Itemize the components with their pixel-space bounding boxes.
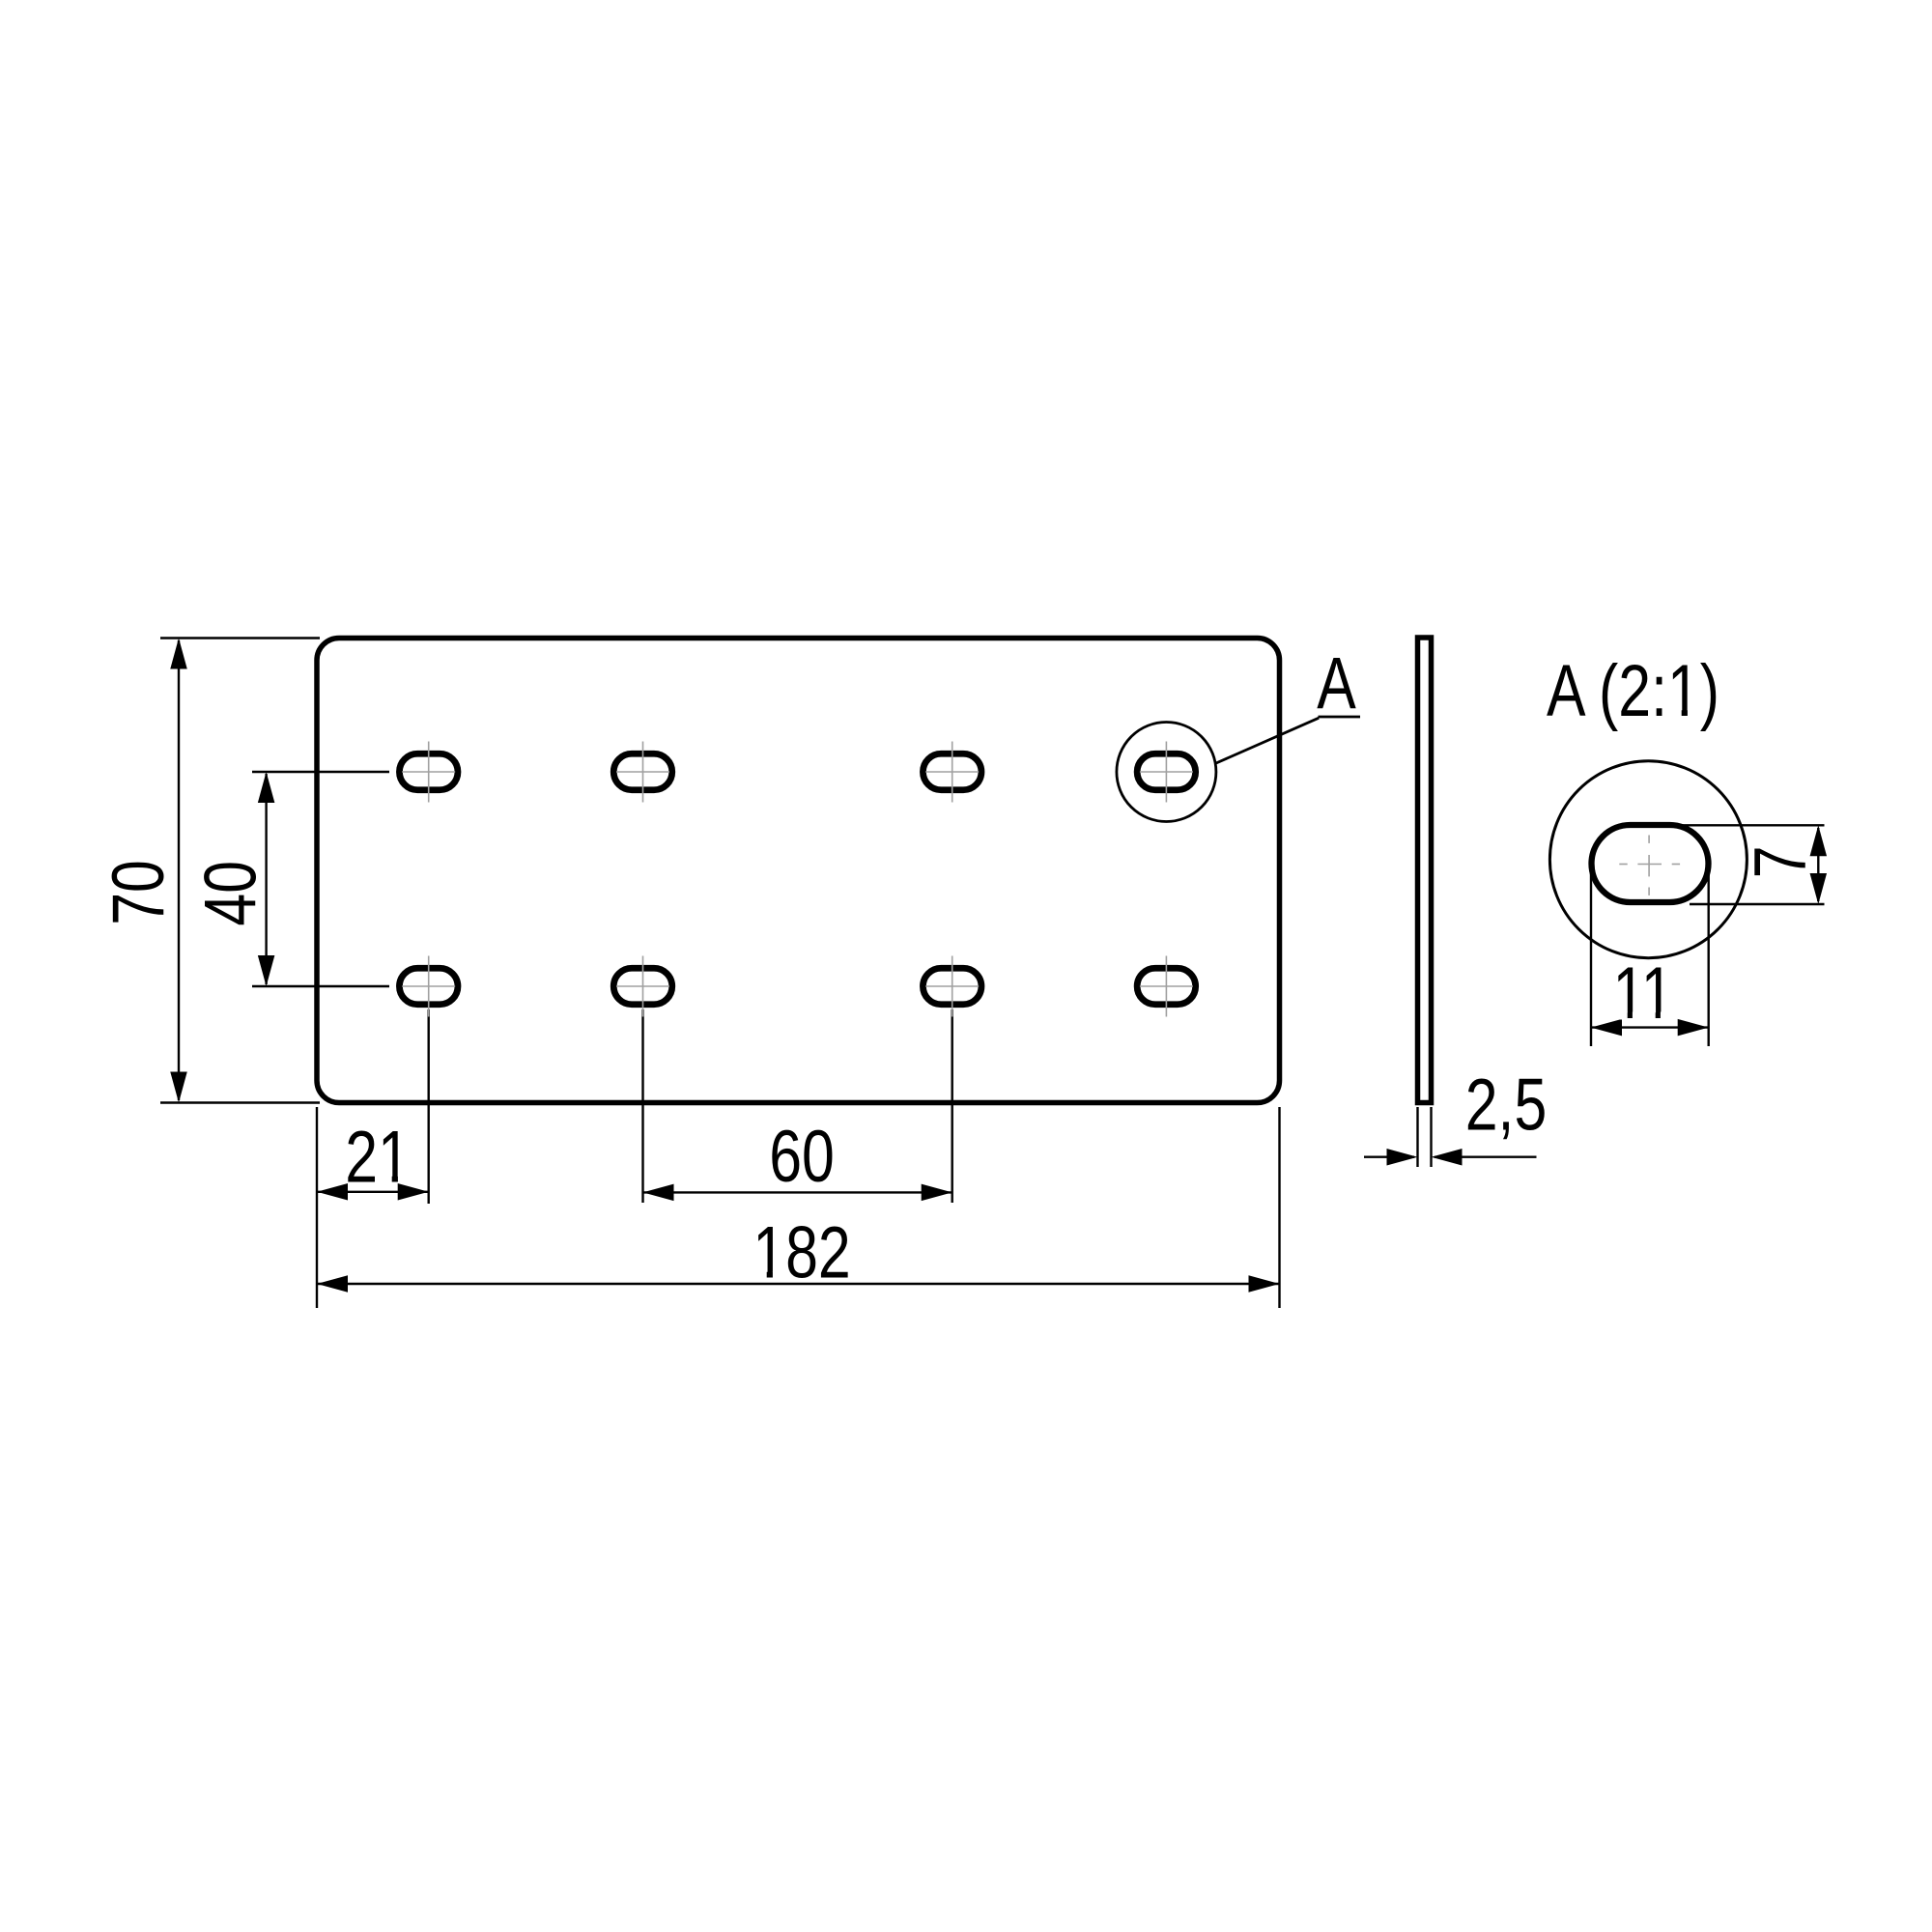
- svg-text:21: 21: [345, 1116, 411, 1198]
- svg-text:7: 7: [1739, 845, 1821, 878]
- svg-text:182: 182: [753, 1211, 850, 1293]
- svg-text:11: 11: [1612, 952, 1673, 1034]
- svg-text:A: A: [1317, 642, 1356, 724]
- svg-text:A (2:1): A (2:1): [1547, 650, 1719, 732]
- svg-text:60: 60: [769, 1116, 835, 1198]
- svg-text:40: 40: [189, 861, 271, 926]
- svg-text:70: 70: [98, 860, 180, 925]
- svg-text:2,5: 2,5: [1465, 1064, 1548, 1146]
